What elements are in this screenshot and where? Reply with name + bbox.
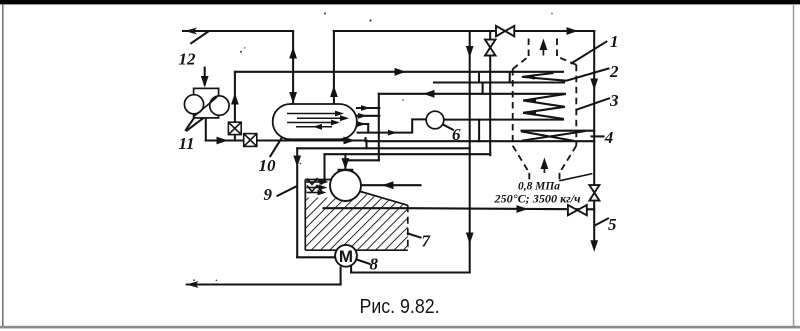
svg-text:1: 1 (610, 32, 619, 51)
svg-text:4: 4 (604, 128, 614, 147)
svg-text:250°С; 3500 кг/ч: 250°С; 3500 кг/ч (493, 192, 580, 206)
svg-text:6: 6 (452, 125, 461, 144)
svg-text:M: M (339, 247, 353, 266)
svg-text:0,8 МПа: 0,8 МПа (518, 179, 560, 193)
svg-text:5: 5 (608, 215, 617, 234)
svg-text:12: 12 (179, 49, 197, 68)
svg-text:3: 3 (609, 91, 619, 110)
svg-text:10: 10 (259, 156, 277, 175)
svg-text:9: 9 (264, 185, 273, 204)
svg-text:8: 8 (370, 254, 379, 273)
svg-text:2: 2 (609, 62, 619, 81)
svg-text:Рис. 9.82.: Рис. 9.82. (360, 296, 440, 318)
svg-text:11: 11 (179, 134, 195, 153)
